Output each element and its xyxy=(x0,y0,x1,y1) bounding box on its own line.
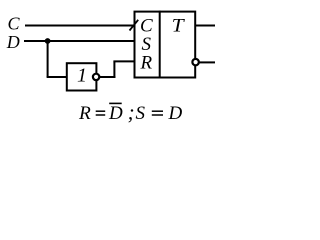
wire D input to flip-flop S pin xyxy=(24,40,135,42)
inverter U1 box xyxy=(67,63,97,90)
flip-flop divider line xyxy=(159,11,161,78)
junction dot on D wire xyxy=(45,38,51,44)
flip-flop U2 outer box xyxy=(135,12,196,78)
svg-text:1: 1 xyxy=(77,65,87,87)
inverted output bubble xyxy=(192,59,198,65)
overline on D xyxy=(109,102,122,104)
svg-text:R: R xyxy=(78,103,91,124)
svg-text:R: R xyxy=(140,52,153,73)
wire inverter output right xyxy=(100,76,116,78)
svg-text:C: C xyxy=(8,14,21,34)
wire Q output xyxy=(196,25,215,27)
wire inverted Q output xyxy=(200,61,216,63)
wire C input to flip-flop C pin xyxy=(25,25,135,27)
wire to flip-flop R pin xyxy=(113,60,134,62)
svg-text:D: D xyxy=(168,103,183,124)
wire up xyxy=(113,61,115,78)
wire junction down xyxy=(47,41,49,77)
svg-text:D: D xyxy=(6,32,20,52)
svg-text:;: ; xyxy=(128,100,135,124)
inverter output bubble xyxy=(93,74,99,80)
svg-text:D: D xyxy=(108,103,123,124)
svg-text:T: T xyxy=(172,16,186,37)
dynamic input slash marker on C pin xyxy=(130,20,139,31)
svg-text:S: S xyxy=(136,103,146,124)
wire to inverter input xyxy=(47,76,67,78)
